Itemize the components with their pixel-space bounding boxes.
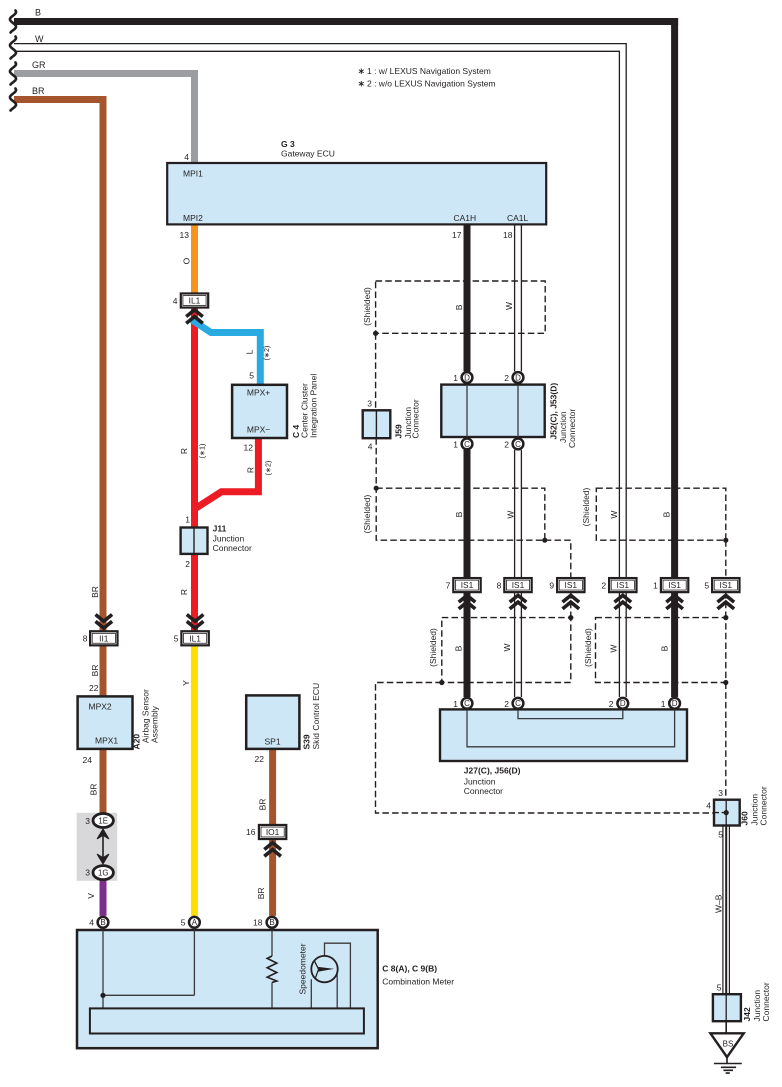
svg-text:BR: BR (90, 586, 100, 598)
junction dot box3R top-right (723, 615, 728, 620)
wire R red J11 pin2 to IL1 pin5 (191, 554, 198, 631)
connector II1 pin 8 (90, 631, 117, 645)
wire W 8 IS1 to J27 2(C) (515, 592, 522, 697)
wire B 7 IS1 to J27 1(C) (464, 592, 471, 697)
svg-text:9: 9 (549, 581, 554, 591)
connector 1G oval (93, 866, 113, 880)
svg-text:R: R (179, 448, 189, 454)
svg-text:1: 1 (185, 515, 190, 525)
svg-text:C: C (464, 699, 470, 708)
svg-text:J11: J11 (213, 524, 227, 534)
sensor A20 Airbag Sensor Assembly box (78, 696, 133, 749)
twist mark below IS1 at x=725.8 (718, 595, 735, 609)
pin 1(C) of J52 (462, 439, 473, 450)
svg-text:R: R (179, 589, 189, 595)
wire B J52 1(C) to 7 IS1 (464, 450, 471, 578)
continuation mark wire BR (10, 89, 16, 111)
svg-text:Combination Meter: Combination Meter (382, 977, 454, 987)
svg-text:22: 22 (89, 683, 99, 693)
svg-text:3: 3 (718, 788, 723, 798)
panel C4 Center Cluster Integration Panel box (232, 385, 287, 438)
svg-text:S39: S39 (302, 734, 312, 749)
svg-text:C: C (515, 440, 521, 449)
svg-text:IL1: IL1 (189, 633, 201, 643)
svg-text:18: 18 (503, 230, 513, 240)
svg-text:2: 2 (609, 699, 614, 709)
svg-text:Connector: Connector (411, 399, 421, 438)
svg-text:G 3: G 3 (281, 139, 295, 149)
pin 1(C) of J27 (462, 698, 473, 709)
shield box2 extension to 9 IS1 (545, 540, 571, 578)
wire O orange G3 pin13 to IL1 (191, 224, 198, 293)
meter bus bar (90, 1008, 364, 1033)
svg-text:W: W (609, 511, 619, 519)
svg-text:J60: J60 (740, 811, 750, 825)
continuation mark wire B (10, 11, 16, 33)
svg-text:(Shielded): (Shielded) (581, 487, 591, 526)
svg-text:GR: GR (32, 60, 46, 70)
svg-text:13: 13 (180, 230, 190, 240)
svg-text:B: B (454, 645, 464, 651)
twist mark below IS1 at x=518 (510, 595, 527, 609)
svg-text:1: 1 (661, 699, 666, 709)
connector IS1 pin 8 (504, 578, 531, 592)
svg-text:Y: Y (181, 680, 191, 686)
pin 1(D) of J27 (669, 698, 680, 709)
svg-text:Junction: Junction (464, 777, 496, 787)
wire B vertical right side (671, 18, 678, 578)
svg-text:D: D (672, 699, 678, 708)
svg-text:8: 8 (83, 634, 88, 644)
svg-text:17: 17 (452, 230, 462, 240)
junction dot box2R bottom-right (723, 538, 728, 543)
junction connector J52(C) J53(D) box (441, 385, 544, 437)
svg-text:IS1: IS1 (565, 580, 578, 590)
svg-text:IS1: IS1 (617, 580, 630, 590)
ECU G3 Gateway ECU box (167, 163, 546, 224)
svg-text:7: 7 (446, 581, 451, 591)
svg-text:(Shielded): (Shielded) (362, 494, 372, 533)
svg-text:J59: J59 (394, 424, 404, 438)
junction dot box1 bottom-left (373, 331, 378, 336)
svg-text:BR: BR (32, 86, 45, 96)
svg-text:(Shielded): (Shielded) (428, 628, 438, 667)
svg-text:8: 8 (497, 581, 502, 591)
note asterisk 1 (359, 69, 364, 75)
connector IL1 pin 5 (181, 631, 208, 645)
svg-text:R: R (245, 467, 255, 473)
junction dot inside J60 (724, 810, 729, 815)
svg-text:(∗2): (∗2) (262, 346, 271, 361)
pin 2(C) of J27 (513, 698, 524, 709)
junction dot box3R bottom-right (723, 680, 728, 685)
pin 2(D) of J27 (617, 698, 628, 709)
shield box 2 left (below J52) (376, 488, 545, 540)
svg-text:W: W (506, 511, 516, 519)
svg-text:Junction: Junction (213, 534, 245, 544)
svg-text:16: 16 (246, 827, 256, 837)
note asterisk 2 (359, 81, 364, 87)
ground BS triangle (710, 1033, 743, 1057)
svg-text:IS1: IS1 (461, 580, 474, 590)
svg-text:2: 2 (504, 440, 509, 450)
wire Y yellow IL1 to meter 5(A) (191, 644, 198, 916)
connector IS1 pin 1 (661, 578, 688, 592)
svg-text:BR: BR (257, 799, 267, 811)
twist mark below IS1 at x=467 (459, 595, 476, 609)
svg-text:1: 1 (653, 581, 658, 591)
shield bus to left edge (376, 683, 715, 814)
shield drain box2R to 5 IS1 (725, 540, 727, 578)
shield box 1 (CA1H/CA1L above J52) (376, 281, 546, 333)
svg-text:MPX+: MPX+ (247, 388, 270, 398)
shield drain J59 to box1 (375, 333, 377, 410)
svg-text:W: W (35, 34, 44, 44)
svg-text:MPI2: MPI2 (183, 213, 203, 223)
svg-text:W: W (504, 302, 514, 310)
connector IL1 pin 4 (181, 293, 208, 307)
twist mark below IL1 pin4 (186, 310, 203, 324)
svg-text:IS1: IS1 (512, 580, 525, 590)
svg-text:BS: BS (723, 1040, 734, 1049)
wire BR brown long run to II1 (14, 100, 103, 632)
speedometer circuit lines (311, 943, 350, 1008)
wire BR IO1 to meter 18(B) (269, 839, 276, 916)
junction dot box3L bottom-left (439, 680, 444, 685)
svg-text:Connector: Connector (213, 543, 252, 553)
shield box 3 right (above J27) (596, 618, 726, 683)
gray highlight box around 1E/1G (77, 813, 118, 881)
svg-text:C: C (464, 440, 470, 449)
shield drain below 9 IS1 (570, 592, 572, 618)
wire B black from battery (14, 18, 678, 25)
pin 1(D) of J52 (462, 372, 473, 383)
svg-text:5: 5 (704, 581, 709, 591)
svg-text:4: 4 (706, 801, 711, 811)
svg-text:IO1: IO1 (266, 827, 280, 837)
svg-text:Connector: Connector (464, 786, 503, 796)
junction connector J59 box (363, 410, 391, 438)
svg-text:L: L (244, 349, 254, 354)
svg-text:1E: 1E (98, 817, 108, 826)
svg-text:CA1H: CA1H (454, 213, 477, 223)
connector IS1 pin 7 (453, 578, 480, 592)
svg-text:O: O (182, 257, 192, 264)
pin 18(B) of meter (267, 917, 278, 928)
connector 1E oval (93, 814, 113, 828)
wire W-B J60 to J42 (723, 826, 730, 995)
wire R red IL1 to J11 pin 1 (191, 308, 198, 528)
svg-text:1: 1 (453, 699, 458, 709)
svg-text:Connector: Connector (759, 786, 769, 825)
wire BR II1 to A20 pin 22 (100, 643, 107, 696)
svg-text:IS1: IS1 (720, 580, 733, 590)
wire J42 to ground (725, 1021, 727, 1034)
twist mark above IL1 pin5 (187, 615, 204, 629)
resistor inside meter (267, 956, 277, 983)
pin 4(B) of meter (98, 917, 109, 928)
connector IS1 pin 5 (712, 578, 739, 592)
svg-text:4: 4 (368, 442, 373, 452)
svg-text:1: 1 (453, 440, 458, 450)
svg-text:B: B (660, 645, 670, 651)
svg-text:1G: 1G (98, 869, 108, 878)
continuation mark wire GR (10, 63, 16, 85)
shield drain J59 to box2 (375, 438, 377, 488)
ECU S39 Skid Control ECU box (246, 695, 299, 749)
twist mark above II1 (96, 615, 113, 629)
svg-text:2 : w/o LEXUS Navigation Syste: 2 : w/o LEXUS Navigation System (367, 79, 496, 89)
junction connector J11 box (181, 528, 208, 554)
svg-text:J52(C), J53(D): J52(C), J53(D) (549, 383, 559, 440)
wire BR A20 pin24 to 1E (100, 749, 107, 816)
svg-text:BR: BR (256, 887, 266, 899)
svg-text:Assembly: Assembly (150, 705, 160, 743)
svg-text:B: B (454, 304, 464, 310)
svg-text:12: 12 (244, 443, 254, 453)
pin 2(C) of J52 (513, 439, 524, 450)
wire V purple 1G to meter 4(B) (100, 878, 107, 916)
pin 5(A) of meter (189, 917, 200, 928)
junction connector J60 box (714, 800, 740, 826)
svg-text:18: 18 (253, 918, 263, 928)
svg-text:W: W (609, 645, 619, 653)
twist mark below IS1 at x=622.8 (615, 595, 632, 609)
pin 2(D) of J52 (513, 372, 524, 383)
svg-text:4: 4 (173, 296, 178, 306)
wire L blue branch to C4 pin 5 (192, 320, 260, 385)
svg-text:SP1: SP1 (265, 737, 281, 747)
svg-text:IS1: IS1 (668, 580, 681, 590)
wire W J52 2(C) to 8 IS1 (515, 450, 522, 578)
svg-text:IL1: IL1 (189, 296, 201, 306)
svg-text:W: W (502, 643, 512, 651)
wire B CA1H G3 to J52 1(D) (464, 224, 471, 371)
svg-text:B: B (661, 511, 671, 517)
svg-text:(∗2): (∗2) (264, 461, 273, 476)
svg-text:B: B (269, 918, 274, 927)
svg-text:Connector: Connector (567, 409, 577, 448)
svg-text:1 : w/ LEXUS Navigation System: 1 : w/ LEXUS Navigation System (367, 66, 491, 76)
shield box 3 left (above J27) (442, 618, 571, 683)
svg-text:C 8(A), C 9(B): C 8(A), C 9(B) (382, 964, 437, 974)
svg-text:5: 5 (249, 371, 254, 381)
svg-text:MPX−: MPX− (247, 425, 270, 435)
wire B right below 1 IS1 to J27 1(D) (671, 592, 678, 697)
wire W CA1L G3 to J52 2(D) (515, 224, 522, 371)
wire GR gray to G3 pin 4 (14, 74, 195, 164)
svg-text:Skid Control ECU: Skid Control ECU (311, 683, 321, 750)
svg-text:II1: II1 (99, 633, 109, 643)
svg-text:D: D (620, 699, 626, 708)
wire BR S39 pin22 to IO1 (269, 749, 276, 825)
continuation mark wire W (10, 37, 16, 59)
svg-text:V: V (86, 893, 96, 899)
svg-text:4: 4 (184, 152, 189, 162)
svg-text:4: 4 (89, 918, 94, 928)
svg-text:(Shielded): (Shielded) (583, 628, 593, 667)
double arrow between 1E and 1G (97, 829, 109, 864)
svg-text:MPI1: MPI1 (183, 169, 203, 179)
svg-text:BR: BR (88, 784, 98, 796)
speedometer gauge symbol (311, 956, 337, 982)
svg-text:3: 3 (367, 399, 372, 409)
svg-text:A: A (192, 918, 198, 927)
svg-text:MPX2: MPX2 (89, 702, 112, 712)
svg-text:5: 5 (718, 830, 723, 840)
connector IS1 pin 9 (557, 578, 584, 592)
junction dot box2L bottom-right (542, 538, 547, 543)
svg-text:3: 3 (85, 816, 90, 826)
svg-text:2: 2 (185, 559, 190, 569)
junction dot box3L top-right (568, 615, 573, 620)
svg-text:B: B (35, 8, 41, 18)
svg-text:5: 5 (174, 634, 179, 644)
junction dot inside meter (100, 993, 105, 998)
twist mark below IS1 at x=570.8 (563, 595, 580, 609)
junction dot box2L top-left (374, 486, 379, 491)
shield drain box3R to J60 (725, 683, 727, 800)
svg-text:5: 5 (717, 983, 722, 993)
svg-text:D: D (464, 373, 470, 382)
connector IS1 pin 2 (609, 578, 636, 592)
svg-text:CA1L: CA1L (507, 213, 529, 223)
svg-text:BR: BR (90, 665, 100, 677)
svg-text:J42: J42 (742, 1007, 752, 1021)
junction connector J27(C) J56(D) box (440, 709, 687, 761)
svg-text:24: 24 (83, 755, 93, 765)
shield drain below 5 IS1 (725, 592, 727, 618)
svg-text:Integration Panel: Integration Panel (309, 374, 319, 438)
ground bars (714, 1057, 742, 1073)
svg-text:2: 2 (504, 699, 509, 709)
svg-text:W–B: W–B (713, 894, 723, 913)
svg-text:J27(C), J56(D): J27(C), J56(D) (464, 766, 521, 776)
connector IO1 pin 16 (259, 825, 286, 839)
svg-text:2: 2 (504, 373, 509, 383)
twist mark below IO1 (264, 843, 281, 857)
twist mark below IS1 at x=674.6 (666, 595, 683, 609)
meter C8/C9 Combination Meter box (77, 930, 378, 1048)
meter internal wiring (103, 930, 272, 1008)
svg-text:C: C (515, 699, 521, 708)
svg-text:22: 22 (255, 754, 265, 764)
svg-text:(Shielded): (Shielded) (362, 287, 372, 326)
svg-text:MPX1: MPX1 (95, 736, 118, 746)
svg-text:2: 2 (601, 581, 606, 591)
svg-text:5: 5 (181, 918, 186, 928)
svg-text:Speedometer: Speedometer (298, 943, 308, 994)
svg-text:(∗1): (∗1) (197, 444, 206, 459)
wire R red branch to C4 pin 12 (193, 438, 258, 510)
svg-text:Connector: Connector (761, 982, 771, 1021)
svg-text:B: B (454, 511, 464, 517)
svg-text:1: 1 (453, 373, 458, 383)
svg-text:D: D (515, 373, 521, 382)
shield box 2 right (596, 488, 726, 540)
svg-text:Gateway ECU: Gateway ECU (281, 149, 335, 159)
junction connector J42 box (713, 994, 741, 1021)
svg-text:3: 3 (85, 868, 90, 878)
svg-text:B: B (100, 918, 105, 927)
wire W right below 2 IS1 to J27 2(D) (619, 592, 626, 697)
wire W top outer line (14, 44, 626, 579)
